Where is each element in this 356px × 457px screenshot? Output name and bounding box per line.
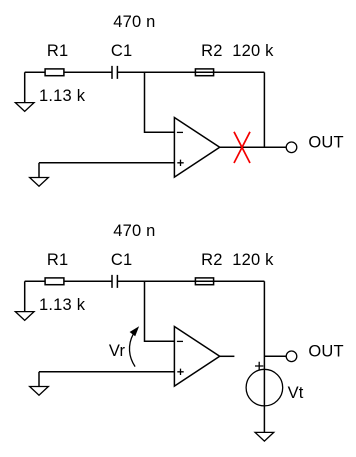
wire: junction drop from C1 node to inverting input (bottom) [145,281,175,341]
wire: C1 to right corner (bottom) [117,280,264,282]
svg-text:120 k: 120 k [232,42,274,60]
op-amp U2 (bottom) [174,327,219,387]
value label 120 k (top R2 value) [232,42,274,60]
label C1 (top) [111,42,132,60]
svg-text:470 n: 470 n [113,222,155,240]
curved arrow for Vr [129,326,139,366]
voltage source Vt [246,369,283,406]
pin label - (bottom op-amp inverting input) [177,340,183,342]
value label 1.13 k (top R1 value) [39,87,86,105]
svg-text:R2: R2 [201,251,223,269]
net label OUT (top) [308,133,343,151]
label R1 (top) [47,42,69,60]
svg-text:OUT: OUT [308,342,343,360]
wire: non-inverting input (bottom) [39,371,174,373]
resistor R1 (bottom) [45,278,64,285]
label C1 (bottom) [111,251,132,269]
wire: drop to ground from + input (bottom) [38,372,40,387]
wire: left input segment to R1 (top) [25,71,45,73]
wire: right drop from R2 through Vt to ground (bottom) [263,281,265,432]
ground (bottom, + input) [30,387,49,396]
svg-text:R1: R1 [47,251,69,269]
svg-text:1.13 k: 1.13 k [39,87,86,105]
wire: drop to ground from + input (top) [38,163,40,178]
wire: non-inverting input (top) [39,162,174,164]
resistor R2 (top) [195,69,213,76]
label R2 (bottom) [201,251,223,269]
label R2 (top) [201,42,223,60]
wire: C1 to right corner (top) [117,71,264,73]
svg-text:Vr: Vr [109,342,126,360]
capacitor C1 (top) [112,66,117,79]
pin label + (top op-amp non-inverting input) [177,160,183,166]
ground (bottom left) [15,312,34,321]
svg-text:R1: R1 [47,42,69,60]
wire: OUT branch from feedback node (bottom) [264,355,286,357]
red X break mark (top output) [234,132,250,163]
svg-text:1.13 k: 1.13 k [39,296,86,314]
wire: R1 to C1 (bottom) [64,280,112,282]
node OUT terminal circle (top) [286,142,297,153]
resistor R2 (bottom) [195,278,213,285]
polarity + of Vt [255,362,263,370]
wire: op-amp output stub (bottom, disconnected) [220,355,235,357]
wire: R1 to C1 (top) [64,71,112,73]
wire: op-amp output to OUT terminal (top) [220,146,287,148]
ground (top, + input) [30,178,49,187]
wire: junction drop from C1 node to inverting input (top) [145,72,175,132]
label Vt [288,384,304,402]
label Vr with curved arrow [109,342,126,360]
value label 470 n (bottom C1 value) [113,222,155,240]
node OUT terminal circle (bottom) [286,351,297,362]
ground (top left) [15,103,34,112]
ground (bottom, under Vt) [255,432,274,441]
wire: left drop to ground (bottom) [24,281,26,311]
resistor R1 (top) [45,69,64,76]
pin label - (top op-amp inverting input) [177,131,183,133]
wire: left drop to ground (top) [24,72,26,102]
wire: feedback right drop (top) [263,72,265,147]
net label OUT (bottom) [308,342,343,360]
pin label + (bottom op-amp non-inverting input) [177,369,183,375]
value label 470 n (top C1 value) [113,13,155,31]
svg-text:C1: C1 [111,42,132,60]
svg-text:Vt: Vt [288,384,304,402]
svg-text:120 k: 120 k [232,251,274,269]
label R1 (bottom) [47,251,69,269]
value label 1.13 k (bottom R1 value) [39,296,86,314]
svg-text:OUT: OUT [308,133,343,151]
op-amp U1 (top) [174,118,219,178]
svg-text:470 n: 470 n [113,13,155,31]
svg-text:C1: C1 [111,251,132,269]
capacitor C1 (bottom) [112,275,117,288]
svg-text:R2: R2 [201,42,223,60]
wire: left input segment to R1 (bottom) [25,280,45,282]
value label 120 k (bottom R2 value) [232,251,274,269]
